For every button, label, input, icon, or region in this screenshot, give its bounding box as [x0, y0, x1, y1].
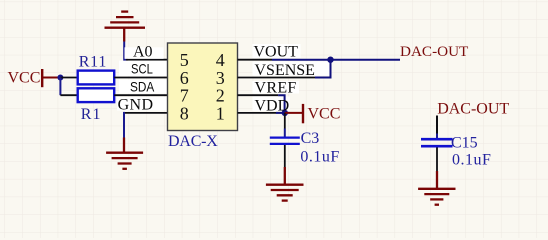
junction node VCC-R11-R1	[57, 75, 63, 81]
svg-text:GND: GND	[118, 97, 154, 114]
svg-text:SCL: SCL	[131, 62, 153, 77]
wire to R1 left	[60, 94, 77, 96]
ground below C15	[418, 189, 455, 205]
svg-text:VOUT: VOUT	[254, 44, 299, 61]
wire DAC-OUT to C15	[436, 116, 438, 134]
svg-text:DAC-X: DAC-X	[168, 133, 218, 150]
capacitor C15	[421, 134, 491, 168]
wire VREF to VDD	[278, 95, 285, 113]
wire GND pin8	[124, 112, 168, 114]
resistor R1	[78, 88, 115, 123]
svg-text:0.1uF: 0.1uF	[452, 152, 491, 169]
ground GND-top (above A0)	[105, 12, 146, 42]
junction node VDD	[282, 110, 288, 116]
pin 2 stub VREF	[238, 94, 279, 96]
wire VDD to VCC bar	[285, 112, 302, 114]
pin 1 stub VDD	[238, 112, 277, 114]
wire VSENSE up to junction	[315, 60, 331, 78]
power port VCC (right)	[303, 104, 340, 123]
wire junction down to R1	[59, 78, 61, 96]
svg-text:DAC-OUT: DAC-OUT	[400, 43, 469, 60]
svg-text:VDD: VDD	[255, 97, 290, 114]
power port VCC (left)	[8, 69, 61, 87]
svg-text:DAC-OUT: DAC-OUT	[437, 100, 509, 117]
svg-text:1: 1	[216, 103, 225, 123]
svg-text:R1: R1	[81, 106, 102, 123]
wire VOUT to DAC-OUT	[272, 59, 400, 61]
wire VDD down to C3	[284, 113, 286, 129]
wire GND vertical	[123, 112, 125, 138]
net label boxes right	[253, 44, 330, 111]
pin 4 stub VOUT	[238, 59, 273, 61]
wire VDD to junction	[276, 112, 285, 114]
op IC U1 DAC-X body	[168, 43, 238, 150]
wire junction to R11	[60, 77, 77, 79]
wire A0 vertical	[124, 42, 128, 60]
svg-text:VSENSE: VSENSE	[255, 62, 315, 79]
svg-text:VCC: VCC	[8, 70, 41, 87]
wire R1 to pin7	[114, 94, 167, 96]
net label boxes left	[117, 47, 168, 110]
wire C3 to ground	[284, 145, 286, 167]
junction node VOUT/VSENSE	[327, 57, 333, 63]
svg-text:VREF: VREF	[255, 80, 297, 97]
wire A0 horizontal	[126, 59, 168, 61]
svg-text:SDA: SDA	[130, 80, 155, 95]
ground GND-bottom-left	[106, 138, 143, 169]
svg-text:C3: C3	[301, 130, 320, 147]
ground below C3	[266, 185, 304, 201]
capacitor C3	[270, 130, 340, 165]
resistor R11	[78, 53, 115, 84]
svg-text:0.1uF: 0.1uF	[300, 149, 339, 166]
svg-text:8: 8	[180, 103, 189, 123]
pin 3 stub VSENSE	[238, 77, 316, 79]
svg-text:VCC: VCC	[308, 105, 341, 122]
svg-text:A0: A0	[133, 44, 153, 61]
wire C15 to ground	[436, 147, 438, 171]
svg-text:R11: R11	[79, 53, 107, 70]
wire R11 to pin6	[114, 77, 167, 79]
svg-text:C15: C15	[451, 134, 478, 151]
